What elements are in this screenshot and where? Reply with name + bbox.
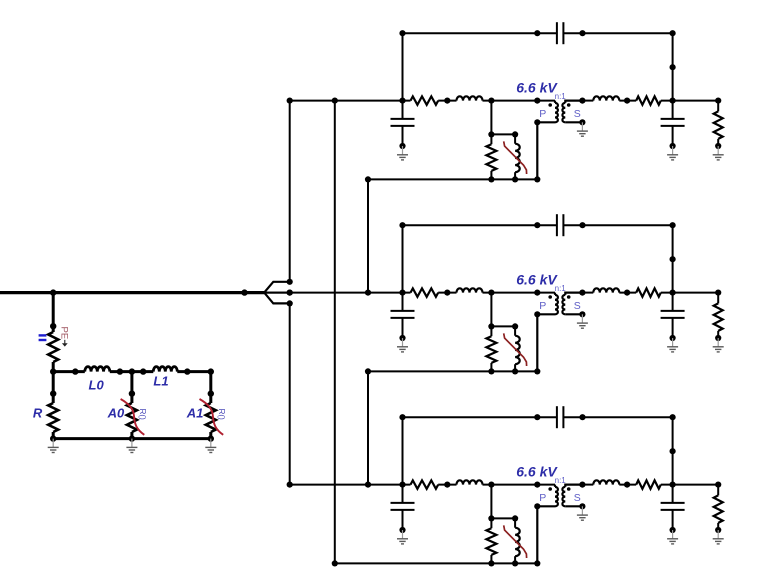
wire: main AC bus (thick) [0, 291, 264, 294]
node at left capacitor junction [399, 290, 405, 296]
saturation red line [504, 333, 527, 366]
resistor PE (earthing resistor) [48, 332, 58, 362]
capacitor shunt left phase 2 [402, 293, 404, 311]
wire between L and R [619, 100, 636, 102]
node subcircuit top-right [512, 131, 518, 137]
svg-text:6.6 kV: 6.6 kV [516, 464, 558, 480]
ground (load) [713, 146, 724, 160]
polarity dot secondary [567, 295, 571, 299]
node secondary bottom [579, 311, 585, 317]
svg-text:n:1: n:1 [555, 92, 567, 101]
wire: phase 2 top feedback right segment [563, 224, 672, 226]
resistor secondary R phase 1 [636, 96, 661, 104]
ground (secondary) [577, 122, 588, 136]
node subcircuit top-left [488, 131, 494, 137]
wire primary bottom [537, 122, 555, 179]
wire: phase 1 lower rail [368, 178, 537, 180]
wire to transformer primary [483, 100, 556, 102]
wire: phase 3 main line left part [290, 484, 411, 486]
node main-line left end [287, 290, 293, 296]
polarity dot primary [548, 487, 552, 491]
resistor magnetizing phase 3 [490, 518, 492, 528]
node A (to phase 1) [287, 279, 293, 285]
node L0 left pin [72, 368, 78, 374]
node on right vertical [670, 256, 676, 262]
label symbol: earth reference (blue bars) [39, 334, 47, 336]
transformer T2 primary winding (P) [554, 293, 556, 295]
resistor series R phase 3 [411, 480, 439, 488]
wire: right vertical of top loop [672, 33, 674, 100]
node left cap bottom [399, 335, 405, 341]
wire between L and R [619, 484, 636, 486]
wire: phase 3 lower rail [335, 562, 538, 564]
node primary bottom [534, 311, 540, 317]
node right cap bottom [670, 335, 676, 341]
resistor load phase 2 [717, 293, 719, 304]
node load resistor top [715, 290, 721, 296]
wire: inter-phase vertical from lower rail [367, 179, 369, 292]
wire secondary bottom [565, 121, 582, 123]
node L0 right pin [117, 368, 123, 374]
node A1 bottom [208, 435, 214, 441]
svg-text:A0: A0 [107, 406, 125, 421]
node subcircuit top-right [512, 323, 518, 329]
node L1 left pin [140, 368, 146, 374]
node between secondary L and R [624, 482, 630, 488]
transformer T3 secondary winding (S) [565, 485, 582, 487]
transformer T1 secondary winding (S) [565, 101, 582, 103]
wire below A0 [130, 432, 133, 439]
wire: left vertical of top loop [402, 417, 404, 484]
wire: phase 2 lower rail [368, 370, 537, 372]
node right of top capacitor [579, 414, 585, 420]
ground (left cap) [397, 338, 408, 352]
node secondary output [579, 98, 585, 104]
inductor series L phase 3 [457, 480, 483, 484]
node left cap bottom [399, 143, 405, 149]
resistor load phase 3 [717, 485, 719, 496]
ground (load) [713, 338, 724, 352]
capacitor C-top phase 1 [556, 22, 558, 44]
inductor secondary L phase 1 [593, 96, 619, 100]
node above A1 [208, 390, 214, 396]
ground (right cap) [667, 530, 678, 544]
node B (to phase 2) [287, 290, 293, 296]
node above PE resistor [50, 323, 56, 329]
node: A0 branch junction [129, 368, 135, 374]
node second bus vertical tap [332, 98, 338, 104]
ground (below R) [48, 439, 59, 453]
resistor R [48, 403, 58, 432]
node left of top capacitor [534, 30, 540, 36]
svg-text:R(): R() [138, 409, 147, 420]
node top-right corner [670, 222, 676, 228]
inductor secondary L phase 3 [593, 480, 619, 484]
wire between L0 and junction [110, 370, 154, 373]
wire: phase 2 top feedback left segment [403, 224, 557, 226]
node right of top capacitor [579, 30, 585, 36]
wire: saturable branch drop [490, 485, 492, 519]
node at left capacitor junction [399, 482, 405, 488]
node subcircuit top-left [488, 323, 494, 329]
wire: left vertical of top loop [402, 225, 404, 292]
wire: left vertical of top loop [402, 33, 404, 100]
node A0 bottom [129, 435, 135, 441]
node subcircuit top-right [512, 515, 518, 521]
node R bottom [50, 435, 56, 441]
wire to load [661, 292, 718, 294]
svg-text:P: P [539, 492, 546, 504]
node top-left corner [399, 30, 405, 36]
varistor A0 resistor body [127, 403, 137, 432]
wire: inductor row L0/L1 [53, 370, 85, 373]
capacitor C-top phase 2 [556, 214, 558, 236]
node primary return tap [534, 290, 540, 296]
wire to load [661, 484, 718, 486]
node between secondary L and R [624, 290, 630, 296]
inductor magnetizing phase 2 (saturable) [514, 326, 516, 335]
node primary return tap [534, 482, 540, 488]
inductor magnetizing phase 1 (saturable) [514, 134, 516, 143]
saturation red line [504, 141, 527, 174]
wire: left bus vertical to phase 1 [289, 101, 291, 282]
wire: phase 3 top feedback right segment [563, 416, 672, 418]
node subcircuit top-left [488, 515, 494, 521]
capacitor shunt right phase 3 [672, 485, 674, 503]
resistor secondary R phase 3 [636, 480, 661, 488]
varistor A1 red curve [200, 399, 224, 435]
wire below R [52, 432, 55, 439]
svg-text:L0: L0 [89, 378, 105, 393]
wire primary bottom [537, 314, 555, 371]
wire: left bus vertical to phase 3 [289, 303, 291, 484]
transformer T1 primary winding (P) [554, 101, 556, 103]
node C (to phase 3) [287, 300, 293, 306]
node secondary output [579, 482, 585, 488]
wire: phase 2 main line left part [264, 292, 410, 294]
node subcircuit bottom-left [488, 368, 494, 374]
node primary return bottom [534, 368, 540, 374]
inductor series L phase 1 [457, 96, 483, 100]
svg-text:n:1: n:1 [555, 476, 567, 485]
svg-text:S: S [574, 300, 581, 312]
wire: second bus vertical (phase1 main to phase3 bottom rail) [334, 101, 336, 564]
ground (right cap) [667, 146, 678, 160]
node above resistor R [50, 390, 56, 396]
node saturable-branch tap [488, 482, 494, 488]
node left of top capacitor [534, 222, 540, 228]
wire secondary to filter [582, 484, 593, 486]
wire between L and R [619, 292, 636, 294]
wire: splitter middle branch [264, 292, 290, 294]
transformer T3 primary winding (P) [554, 485, 556, 487]
node saturable-branch tap [488, 98, 494, 104]
node primary return bottom [534, 176, 540, 182]
resistor series R phase 2 [411, 288, 439, 296]
wire below A1 [209, 432, 212, 439]
ground (below A0) [126, 439, 137, 453]
capacitor shunt left phase 3 [402, 485, 404, 503]
svg-text:PE: PE [58, 327, 69, 340]
svg-text:P: P [539, 108, 546, 120]
wire: A1 branch [209, 372, 212, 403]
node left cap bottom [399, 527, 405, 533]
node top-right corner [670, 30, 676, 36]
node above A0 [129, 390, 135, 396]
wire: PE branch vertical upper [52, 293, 55, 332]
resistor load phase 1 [717, 101, 719, 112]
wire: phase 1 top feedback left segment [403, 32, 557, 34]
node right cap bottom [670, 143, 676, 149]
inductor L1 [153, 367, 177, 372]
wire: phase 3 top feedback left segment [403, 416, 557, 418]
node subcircuit bottom-right [512, 176, 518, 182]
svg-text:R: R [33, 406, 43, 421]
ground (left cap) [397, 530, 408, 544]
svg-text:L1: L1 [153, 374, 168, 389]
wire to load [661, 100, 718, 102]
node: PE branch junction on bus [50, 289, 56, 295]
inductor L0 [85, 367, 110, 372]
node lower rail left end [365, 176, 371, 182]
node load resistor top [715, 482, 721, 488]
node primary return tap [534, 98, 540, 104]
ground (right cap) [667, 338, 678, 352]
svg-text:S: S [574, 492, 581, 504]
node between R and L [444, 482, 450, 488]
wire: subcircuit top rail [491, 325, 515, 327]
wire primary bottom [537, 506, 555, 563]
wire to transformer primary [483, 484, 556, 486]
resistor magnetizing phase 2 [490, 326, 492, 336]
node subcircuit bottom-left [488, 176, 494, 182]
node main-line left end [287, 98, 293, 104]
ground (left cap) [397, 146, 408, 160]
transformer T2 secondary winding (S) [565, 293, 582, 295]
resistor magnetizing phase 1 [490, 134, 492, 144]
wire: splitter lower branch [264, 293, 290, 304]
wire after series resistor [438, 292, 456, 294]
node top-right corner [670, 414, 676, 420]
ground (below A1) [205, 439, 216, 453]
node inter-phase vertical tap [365, 290, 371, 296]
ground (load) [713, 530, 724, 544]
node lower rail left end [332, 560, 338, 566]
wire: splitter upper branch [264, 282, 290, 293]
node: A1 corner [208, 368, 214, 374]
node secondary output [579, 290, 585, 296]
node load resistor bottom [715, 527, 721, 533]
wire: right vertical of top loop [672, 225, 674, 292]
node between secondary L and R [624, 98, 630, 104]
wire secondary to filter [582, 292, 593, 294]
capacitor shunt right phase 1 [672, 101, 674, 119]
polarity dot secondary [567, 103, 571, 107]
node primary return bottom [534, 560, 540, 566]
node on right vertical [670, 64, 676, 70]
svg-text:6.6 kV: 6.6 kV [516, 272, 558, 288]
wire secondary to filter [582, 100, 593, 102]
node: L0 row junction [50, 368, 56, 374]
node right cap junction [670, 290, 676, 296]
node load resistor top [715, 98, 721, 104]
node inter-phase vertical tap [365, 482, 371, 488]
node right cap junction [670, 482, 676, 488]
resistor series R phase 1 [411, 96, 439, 104]
node top-left corner [399, 222, 405, 228]
inductor series L phase 2 [457, 288, 483, 292]
node main-line left end [287, 482, 293, 488]
node right cap bottom [670, 527, 676, 533]
node secondary bottom [579, 119, 585, 125]
svg-text:P: P [539, 300, 546, 312]
node on bus [241, 289, 247, 295]
node subcircuit bottom-right [512, 560, 518, 566]
node between R and L [444, 290, 450, 296]
svg-text:R(): R() [217, 409, 226, 420]
wire: left network bottom rail [53, 437, 211, 440]
node on right vertical [670, 448, 676, 454]
svg-text:S: S [574, 108, 581, 120]
node right cap junction [670, 98, 676, 104]
wire after series resistor [438, 484, 456, 486]
wire: subcircuit top rail [491, 133, 515, 135]
ground (secondary) [577, 314, 588, 328]
node subcircuit bottom-left [488, 560, 494, 566]
node subcircuit bottom-right [512, 368, 518, 374]
capacitor shunt right phase 2 [672, 293, 674, 311]
wire: inter-phase vertical from lower rail [367, 371, 369, 484]
inductor magnetizing phase 3 (saturable) [514, 518, 516, 527]
wire after series resistor [438, 100, 456, 102]
wire: right vertical of top loop [672, 417, 674, 484]
wire: A0 branch [130, 372, 133, 403]
varistor A0 red curve [121, 399, 145, 435]
capacitor shunt left phase 1 [402, 101, 404, 119]
svg-text:A1: A1 [186, 406, 204, 421]
wire to transformer primary [483, 292, 556, 294]
node top-left corner [399, 414, 405, 420]
node secondary bottom [579, 503, 585, 509]
node left of top capacitor [534, 414, 540, 420]
saturation red line [504, 525, 527, 558]
capacitor C-top phase 3 [556, 406, 558, 428]
wire: phase 1 top feedback right segment [563, 32, 672, 34]
node right of top capacitor [579, 222, 585, 228]
polarity dot primary [548, 103, 552, 107]
polarity dot secondary [567, 487, 571, 491]
wire secondary bottom [565, 505, 582, 507]
inductor secondary L phase 2 [593, 288, 619, 292]
wire below PE resistor [52, 362, 55, 403]
node between R and L [444, 98, 450, 104]
node saturable-branch tap [488, 290, 494, 296]
resistor secondary R phase 2 [636, 288, 661, 296]
polarity dot primary [548, 295, 552, 299]
wire secondary bottom [565, 313, 582, 315]
wire from L1 to A1 corner [177, 370, 211, 373]
node load resistor bottom [715, 143, 721, 149]
wire: saturable branch drop [490, 101, 492, 135]
wire: saturable branch drop [490, 293, 492, 327]
ground (secondary) [577, 506, 588, 520]
node primary bottom [534, 503, 540, 509]
svg-text:n:1: n:1 [555, 284, 567, 293]
node primary bottom [534, 119, 540, 125]
node L1 right pin [184, 368, 190, 374]
wire: phase 1 main line left part [290, 100, 411, 102]
varistor A1 resistor body [206, 403, 216, 432]
node load resistor bottom [715, 335, 721, 341]
node at left capacitor junction [399, 98, 405, 104]
node lower rail left end [365, 368, 371, 374]
svg-text:6.6 kV: 6.6 kV [516, 80, 558, 96]
wire: subcircuit top rail [491, 517, 515, 519]
PE probe arrow [64, 340, 66, 344]
